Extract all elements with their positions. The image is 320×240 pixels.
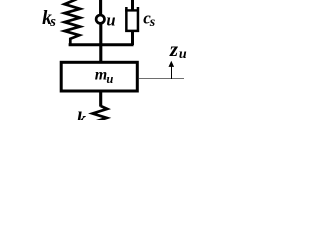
wire: rod from circle through crossbar to mass box <box>99 24 102 64</box>
damper CS rod <box>131 0 134 12</box>
mass MU box <box>61 62 137 91</box>
svg-text:z: z <box>169 37 179 61</box>
damper CS piston plate <box>125 9 139 11</box>
svg-text:s: s <box>149 15 156 30</box>
arrow z_u shaft <box>171 66 173 79</box>
wire: crossbar joining spring, actuator, damper <box>69 43 134 46</box>
damper CS cylinder <box>126 7 138 31</box>
spring KS zigzag <box>65 0 81 45</box>
damper CS outlet rod <box>131 30 134 45</box>
wire: rod below mass box <box>99 90 102 107</box>
svg-text:u: u <box>106 72 113 86</box>
svg-text:u: u <box>106 11 115 30</box>
node: displacement reference line <box>139 78 184 80</box>
spring K (bottom, cropped) <box>93 106 108 123</box>
arrow z_u head <box>169 61 175 67</box>
wire: rod above actuator circle <box>99 0 102 16</box>
actuator U (circle) <box>96 15 104 23</box>
svg-text:k: k <box>77 109 87 120</box>
svg-text:u: u <box>179 47 187 62</box>
svg-text:m: m <box>95 67 107 84</box>
svg-text:s: s <box>49 14 56 30</box>
